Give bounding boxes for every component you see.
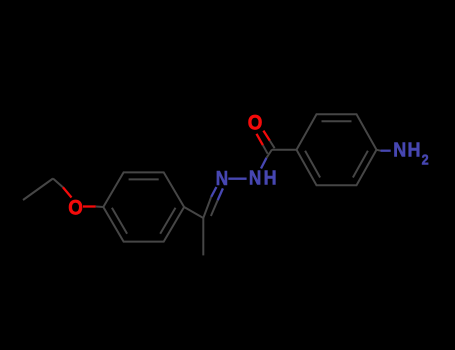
svg-text:2: 2 bbox=[422, 151, 429, 168]
benzene ring 1 (4-ethoxyphenyl) bbox=[103, 172, 184, 241]
bond CH3-CH2 (ethyl) bbox=[23, 179, 53, 201]
svg-text:N: N bbox=[216, 168, 228, 190]
bond O1-C1 (to ring 1) bbox=[83, 205, 103, 208]
svg-text:O: O bbox=[248, 110, 263, 134]
amine group NH2 bbox=[393, 140, 428, 169]
bond CH2-O (ether) bbox=[53, 179, 72, 198]
bond N1-N2 bbox=[228, 178, 246, 180]
benzene ring 2 (4-aminophenyl) bbox=[297, 114, 377, 185]
svg-text:H: H bbox=[408, 140, 421, 162]
atom N2 (amide NH) bbox=[249, 168, 277, 190]
double bond C8=O2 (carbonyl) bbox=[257, 131, 275, 154]
bond C4(ring1)-C7 bbox=[184, 207, 203, 218]
bond C12(ring2)-N3 (amine) bbox=[377, 149, 391, 152]
svg-text:H: H bbox=[264, 168, 277, 190]
bond C7-CH3 (methyl) bbox=[202, 218, 204, 255]
bond C8-C9 (to ring 2) bbox=[272, 149, 297, 151]
svg-text:N: N bbox=[393, 140, 406, 162]
bond N2-C8 (amide N to carbonyl C) bbox=[261, 150, 272, 169]
svg-text:N: N bbox=[249, 168, 261, 190]
svg-text:O: O bbox=[68, 196, 83, 220]
double bond C7=N1 bbox=[203, 187, 223, 218]
